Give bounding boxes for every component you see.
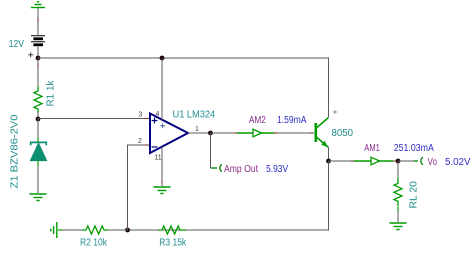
ground GND top (inverted, above battery) <box>31 2 45 8</box>
svg-text:R3 15k: R3 15k <box>159 238 187 249</box>
op-amp internal plus marker <box>160 123 165 128</box>
wire node B to op-amp pin 3 <box>38 118 149 120</box>
resistor RL 20 <box>394 180 402 207</box>
svg-text:Z1 BZV86-2V0: Z1 BZV86-2V0 <box>9 114 20 188</box>
grid dots <box>0 0 1 1</box>
svg-text:3: 3 <box>138 112 142 119</box>
node B junction (38,119) <box>36 117 41 122</box>
probe hook Vo <box>414 157 423 164</box>
ammeter AM2 <box>237 129 274 137</box>
svg-text:12V: 12V <box>9 39 24 50</box>
probe hook Amp Out <box>211 164 222 171</box>
component lead ticks (green) <box>38 138 398 231</box>
wire node E down to RL <box>397 161 399 180</box>
resistor R1 1k <box>34 87 42 113</box>
resistor R3 15k <box>158 226 186 234</box>
wire node F to R2 <box>107 229 128 231</box>
svg-text:8050: 8050 <box>332 128 354 139</box>
ground below zener <box>30 194 47 201</box>
svg-text:R1 1k: R1 1k <box>46 80 57 107</box>
node E junction (398,161) <box>396 159 401 164</box>
wire node E to probe Vo <box>398 160 414 162</box>
wire node D down to bottom rail <box>128 161 329 230</box>
wire RL to ground <box>397 208 399 223</box>
wire top rail <box>38 58 329 117</box>
svg-text:U1 LM324: U1 LM324 <box>173 109 216 120</box>
transistor Q1 8050 <box>316 118 329 148</box>
wire ground-to-battery <box>37 8 39 35</box>
svg-text:1.59mA: 1.59mA <box>277 115 307 126</box>
svg-text:RL 20: RL 20 <box>409 181 420 209</box>
svg-text:1: 1 <box>195 126 199 133</box>
wire node A down to R1 <box>37 58 39 87</box>
svg-text:5.93V: 5.93V <box>266 164 288 175</box>
wire battery to node A <box>37 47 39 59</box>
wire node B down to zener <box>37 119 39 142</box>
collector pin marker <box>333 110 337 114</box>
node C junction (210.5,133) <box>208 131 213 136</box>
resistor R2 10k <box>82 226 108 234</box>
ground below RL <box>390 223 407 230</box>
wire node D to ammeter AM1 <box>329 160 355 162</box>
node supply junction (162,58) <box>160 56 165 61</box>
zener diode Z1 BZV86-2V0 <box>30 142 46 160</box>
svg-text:R2 10k: R2 10k <box>80 238 108 249</box>
op-amp plus input marker <box>152 118 158 124</box>
svg-text:11: 11 <box>154 155 161 162</box>
wire pin-end ticks (maroon) <box>38 18 396 183</box>
svg-text:Vo: Vo <box>428 157 438 168</box>
op-amp minus input marker <box>152 146 158 148</box>
svg-text:5.02V: 5.02V <box>445 157 471 168</box>
node A junction (38,58) <box>36 56 41 61</box>
wire R2 to ground <box>58 229 82 231</box>
svg-text:AM2: AM2 <box>249 115 266 126</box>
wire AM1 to node E <box>393 160 398 162</box>
svg-text:251.03mA: 251.03mA <box>394 143 434 154</box>
battery V1 12V <box>31 36 45 47</box>
node F junction (127.5,230) <box>125 228 130 233</box>
svg-text:AM1: AM1 <box>364 143 380 154</box>
svg-text:2: 2 <box>138 138 142 145</box>
wire op-amp V- to ground <box>161 147 163 187</box>
wire zener to ground <box>37 161 39 194</box>
wire supply rail to op-amp V+ <box>161 58 163 120</box>
wire node C to ammeter AM2 <box>211 132 238 134</box>
node D junction (328.5,161) <box>326 159 331 164</box>
wire transistor emitter down to node D <box>328 148 330 162</box>
wire R1 to node B <box>37 112 39 119</box>
ground left of R2 (rotated) <box>51 222 57 238</box>
wire node F up to op-amp pin 2 <box>128 145 150 230</box>
ammeter AM1 <box>354 157 393 165</box>
op-amp U1 LM324 <box>150 114 188 154</box>
wire AM2 to transistor base <box>274 132 314 134</box>
ground below op-amp <box>154 187 171 194</box>
svg-text:Amp Out: Amp Out <box>224 164 258 175</box>
wire op-amp output to node C <box>188 132 211 134</box>
battery plus marker <box>28 52 33 57</box>
probe stub Amp Out <box>210 133 212 168</box>
